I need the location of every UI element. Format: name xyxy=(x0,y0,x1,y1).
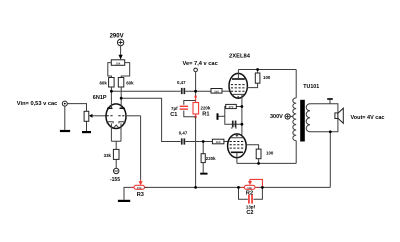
svg-text:2XEL84: 2XEL84 xyxy=(229,53,251,59)
svg-text:-155: -155 xyxy=(110,177,120,183)
svg-text:60k: 60k xyxy=(99,80,107,85)
svg-text:100: 100 xyxy=(266,151,274,156)
svg-text:C1: C1 xyxy=(170,112,177,118)
svg-text:10k: 10k xyxy=(116,61,121,65)
svg-text:1k0: 1k0 xyxy=(216,140,221,144)
svg-text:13pf: 13pf xyxy=(246,205,256,210)
svg-text:1k0: 1k0 xyxy=(214,89,219,93)
svg-text:Vin= 0,53 v cac: Vin= 0,53 v cac xyxy=(17,101,58,107)
svg-text:220k: 220k xyxy=(206,156,216,161)
svg-text:10k: 10k xyxy=(247,186,252,190)
svg-text:100: 100 xyxy=(263,75,271,80)
svg-text:R3: R3 xyxy=(137,192,144,198)
svg-text:33k: 33k xyxy=(104,153,112,158)
svg-text:0,47: 0,47 xyxy=(177,80,186,85)
svg-text:60k: 60k xyxy=(126,80,134,85)
svg-text:6N1P: 6N1P xyxy=(93,95,107,101)
svg-text:270: 270 xyxy=(229,105,234,109)
svg-text:TU101: TU101 xyxy=(303,84,319,90)
svg-text:Vout= 4V cac: Vout= 4V cac xyxy=(351,115,385,121)
svg-text:R1: R1 xyxy=(202,111,209,117)
svg-text:C2: C2 xyxy=(246,210,253,216)
svg-text:15k: 15k xyxy=(137,186,142,190)
svg-text:0,47: 0,47 xyxy=(179,131,188,136)
svg-text:220k: 220k xyxy=(201,106,211,111)
svg-text:Ve= 7,4 v cac: Ve= 7,4 v cac xyxy=(183,61,218,67)
svg-text:7pf: 7pf xyxy=(171,106,178,111)
svg-text:290V: 290V xyxy=(110,33,124,39)
svg-text:300V: 300V xyxy=(270,114,283,120)
